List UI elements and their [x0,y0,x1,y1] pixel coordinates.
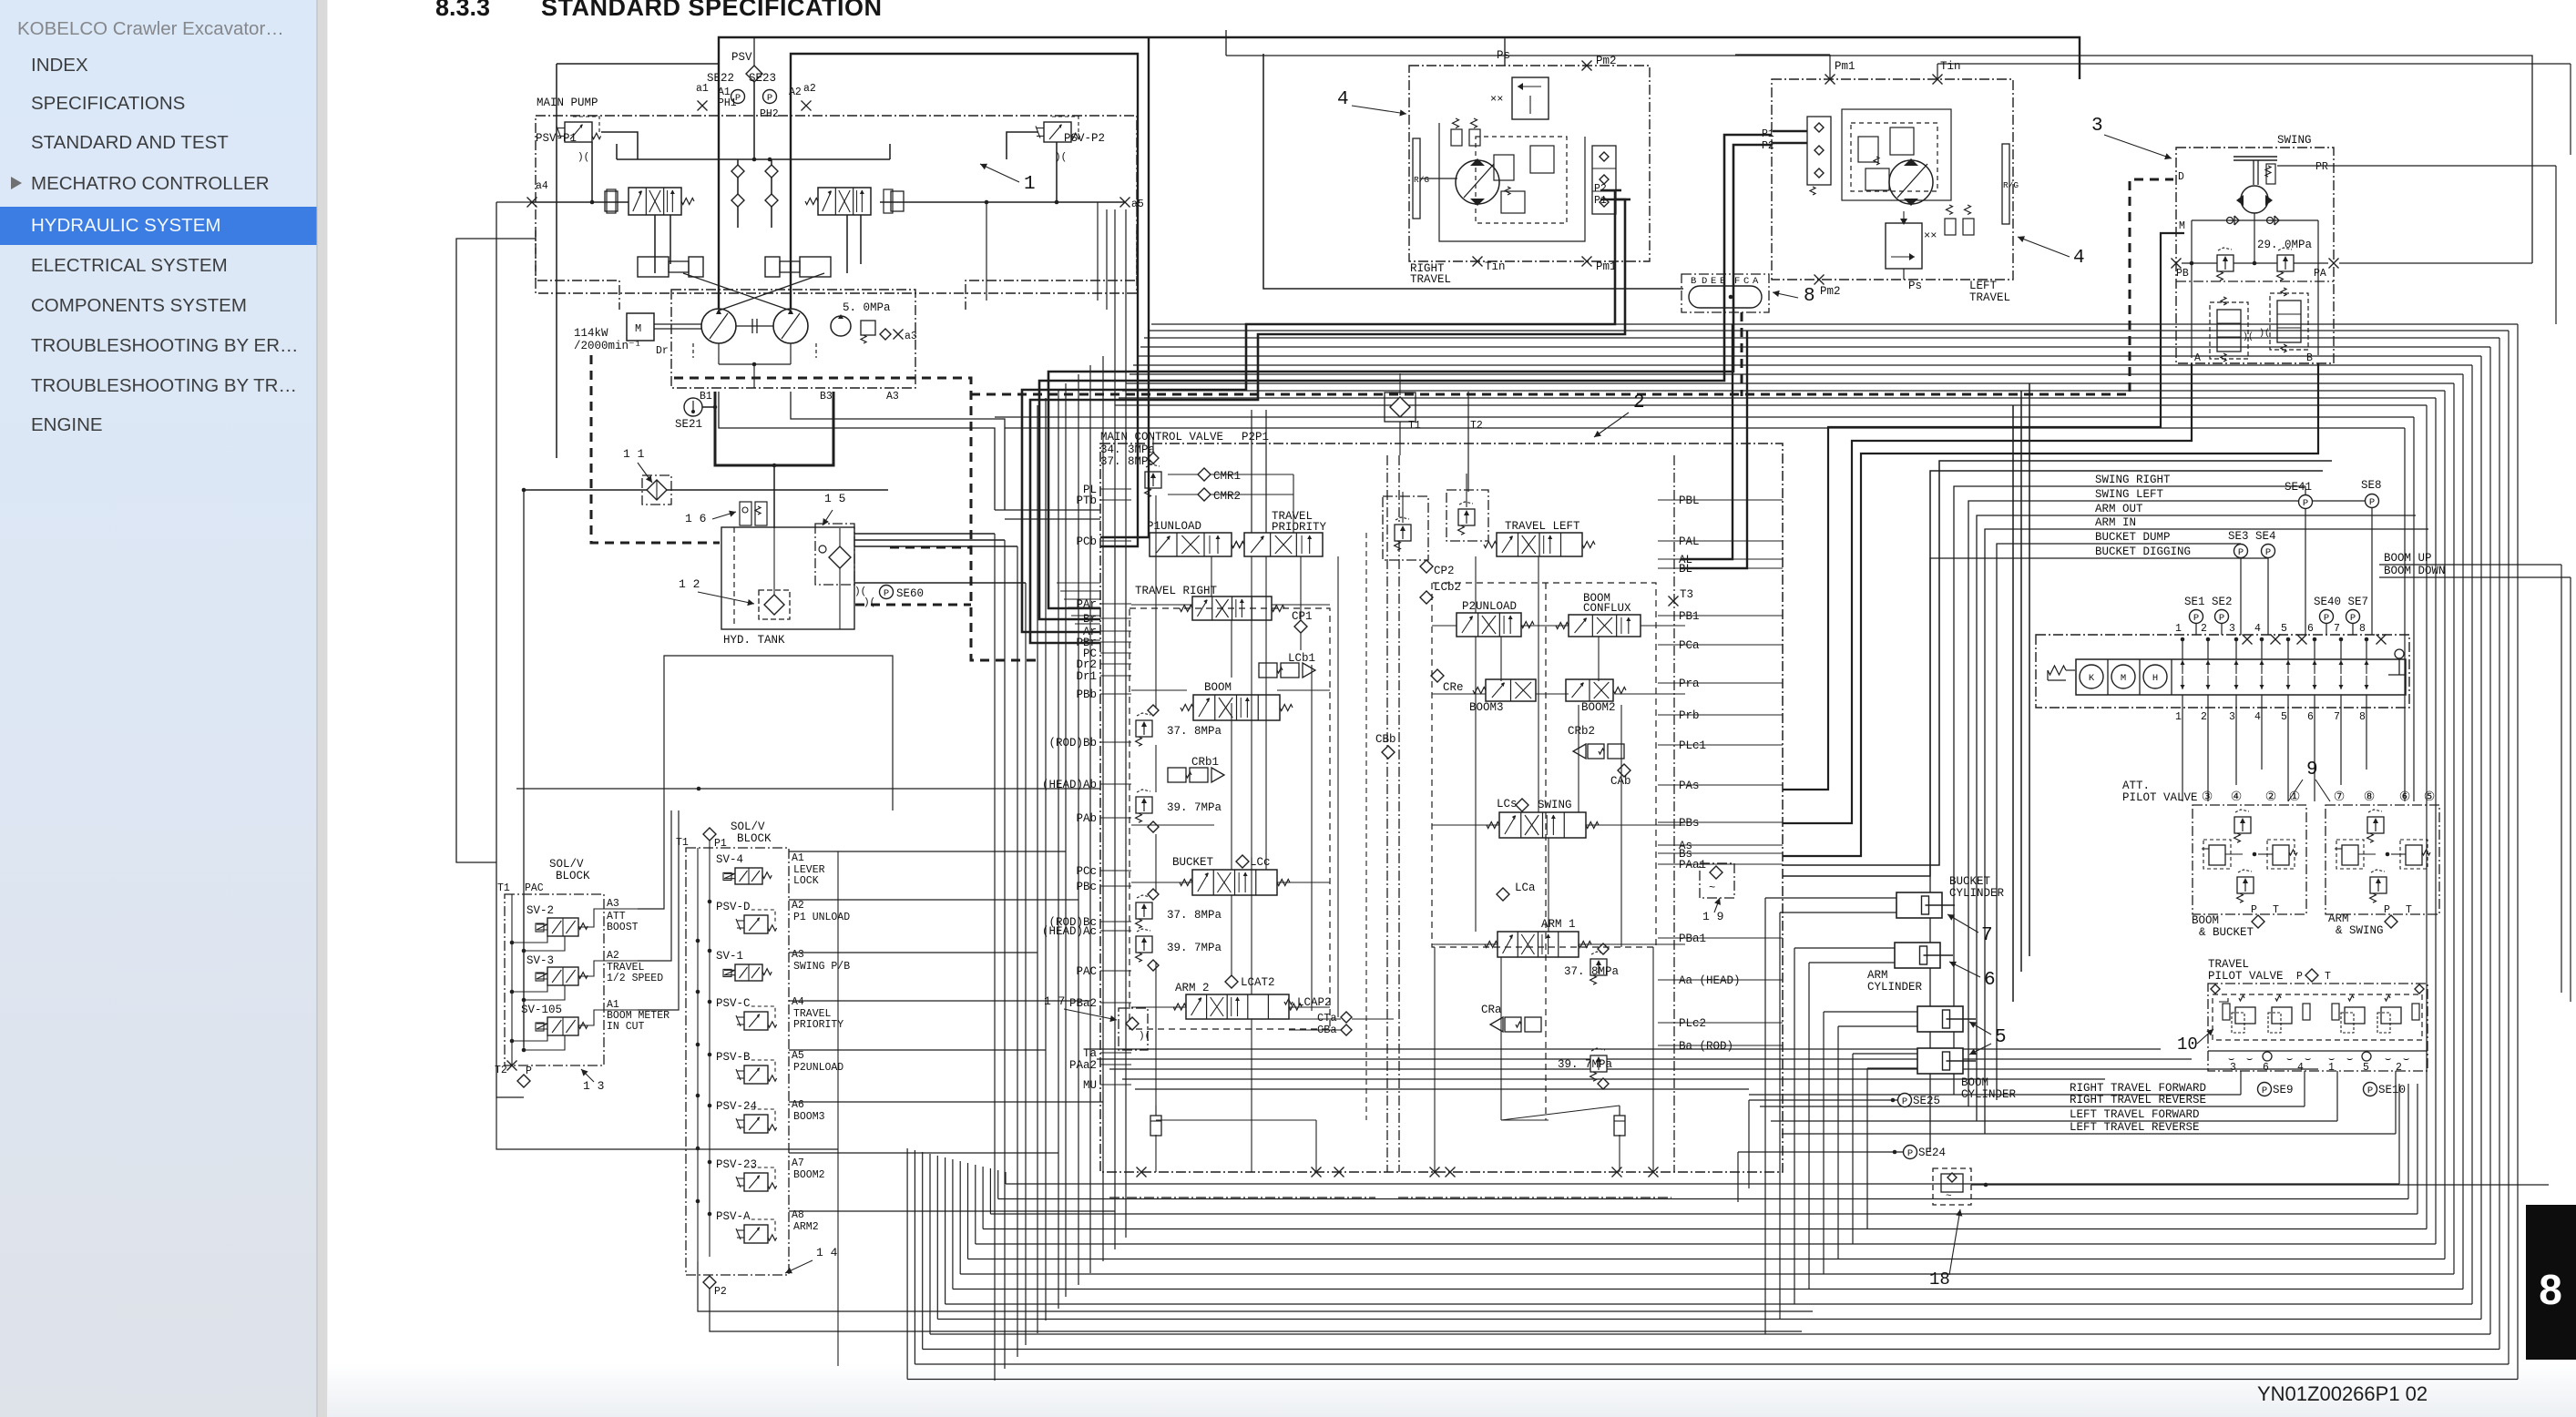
svg-text:4: 4 [2254,711,2261,723]
svg-text:PB1: PB1 [1679,610,1700,623]
svg-text:TRAVEL: TRAVEL [2208,958,2249,971]
svg-text:P2: P2 [714,1286,727,1298]
svg-text:PSV-24: PSV-24 [716,1100,757,1113]
svg-text:39. 7MPa: 39. 7MPa [1558,1058,1613,1071]
svg-text:A3: A3 [792,949,804,961]
sensor SE41 [2285,481,2313,509]
wire sensor drops [2196,508,2372,635]
pump circle 1 [701,309,736,343]
svg-text:C: C [1743,276,1749,287]
svg-text:1 6: 1 6 [685,512,706,525]
svg-text:Pm1: Pm1 [1596,260,1617,273]
svg-text:××: ×× [1924,229,1937,242]
wire pump P1 delivery [719,37,2080,537]
x mark a1 [698,101,708,111]
svg-text:6: 6 [2307,623,2314,635]
lt P1P2 ports [1762,128,1807,152]
svg-text:PBs: PBs [1679,817,1700,830]
svg-text:1 1: 1 1 [623,447,645,461]
check CTa [1317,1012,1352,1025]
svg-text:SE22: SE22 [707,72,734,85]
svg-text:ARM: ARM [2328,912,2349,925]
wire 14 outputs [789,851,1115,1211]
svg-text:⌣: ⌣ [2305,1055,2311,1065]
svg-text:LCs: LCs [1497,798,1518,810]
wire rcv to att pv [2182,713,2366,801]
svg-text:MECHATRO CONTROLLER: MECHATRO CONTROLLER [31,173,270,194]
svg-text:a3: a3 [905,331,917,342]
svg-text:P: P [2369,497,2375,508]
check CP2 [1420,560,1455,577]
filter T1 box [1385,373,1416,455]
svg-text:PLc2: PLc2 [1679,1017,1706,1030]
check CRa [1481,1004,1541,1032]
check CAb [1610,764,1631,788]
wire mcv feeds [995,510,1100,519]
svg-text:CBb: CBb [1375,733,1396,746]
svg-text:1 5: 1 5 [824,492,845,505]
svg-text:8: 8 [2539,1266,2562,1313]
svg-text:2: 2 [2201,711,2207,723]
svg-text:A1: A1 [792,852,804,864]
wire mcv left stubs [1100,489,1131,1085]
svg-text:P2P1: P2P1 [1242,431,1269,443]
check CRb1 [1168,756,1224,782]
wire bold dash oval drop [1741,312,1743,396]
black page tab 8 [2526,1205,2576,1360]
label SWING block [2277,134,2312,147]
svg-text:P: P [767,93,772,104]
label ATT PILOT VALVE [2122,780,2198,804]
svg-text:4: 4 [2297,1062,2304,1074]
relief bucket head [1136,929,1222,971]
wire tank outputs [854,534,1026,583]
sensor SE1 SE2 [2184,596,2233,624]
svg-text:SE25: SE25 [1913,1095,1940,1107]
x mark PB [2172,259,2189,280]
svg-text:10: 10 [2177,1035,2198,1055]
wire att pv supply verticals [2013,383,2029,1002]
svg-text:PSV-D: PSV-D [716,901,751,913]
svg-text:③: ③ [2202,790,2213,805]
svg-text:8.3.3: 8.3.3 [435,0,490,21]
mcv right port labels [1679,494,1741,1053]
svg-text:PBL: PBL [1679,494,1700,507]
check LCa [1497,882,1536,901]
wire loop PAa1 [1783,471,2323,876]
svg-text:)(: )( [2259,328,2270,339]
filter 15 assembly [815,524,854,629]
svg-text:SE8: SE8 [2361,479,2382,492]
label SOL/V BLOCK 14 [731,821,772,845]
remote control valve box [2036,635,2409,708]
mcv bottom symbols [1150,1106,1625,1136]
sensor SE9 [2258,1083,2294,1097]
svg-text:BLOCK: BLOCK [737,832,772,845]
relief boom head [1136,790,1222,832]
svg-text:M: M [2121,673,2126,684]
svg-text:B: B [1691,276,1696,287]
att pv circled numbers [2202,790,2436,805]
svg-text:⌣: ⌣ [2385,1055,2391,1065]
check LCb1 [1259,652,1315,678]
rcv x marks [2243,635,2387,645]
svg-text:P: P [1907,1148,1913,1159]
wire 13 outputs [638,810,679,1010]
svg-text:B3: B3 [820,391,833,403]
svg-text:LOCK: LOCK [793,875,819,887]
svg-text:BUCKET: BUCKET [1172,856,1214,869]
rt inner frame [1439,123,1585,241]
sensor SE10 [2364,1083,2407,1097]
wire a4 line [532,201,629,203]
wire top line y61 [1226,30,2532,263]
label 37.8MPa top [1100,455,1156,468]
check diamond col2a [765,165,778,178]
wire a5 down [986,202,987,301]
wire pump top bus [601,132,1038,159]
check CMR1 [1198,468,1241,483]
svg-text:39. 7MPa: 39. 7MPa [1167,801,1222,814]
svg-text:RIGHT TRAVEL FORWARD: RIGHT TRAVEL FORWARD [2070,1082,2206,1095]
svg-text:A7: A7 [792,1157,804,1169]
wire mcv h2 [1131,825,1330,1007]
wire long horizontal bus [1115,324,2518,1380]
svg-text:A2: A2 [607,950,619,962]
svg-text:A4: A4 [792,996,804,1008]
lt bottom valve [1886,211,1922,269]
valve BOOM2 [1566,679,1626,714]
sensor SE8 [2361,479,2382,508]
svg-text:P1: P1 [714,838,727,850]
svg-text:SE3 SE4: SE3 SE4 [2228,530,2276,543]
svg-text:SE60: SE60 [896,587,924,600]
x mark a3 [894,330,904,340]
label Pm2 lt [1814,275,1841,299]
label PAC 13 [525,882,544,894]
svg-text:TROUBLESHOOTING BY ER…: TROUBLESHOOTING BY ER… [31,335,299,356]
svg-text:CRb1: CRb1 [1191,756,1219,769]
label T2 mcv [1470,420,1483,432]
wire swash diagonal 2 [719,273,824,311]
svg-text:37. 8MPa: 37. 8MPa [1167,725,1222,738]
swing frame [2192,220,2318,358]
svg-text:MU: MU [1083,1079,1097,1092]
svg-text:T: T [2325,971,2331,983]
svg-text:P: P [2384,904,2390,916]
svg-text:CRa: CRa [1481,1004,1502,1016]
rcv handle [2388,649,2405,675]
svg-text:P1 UNLOAD: P1 UNLOAD [793,912,850,923]
wire thick B1B3 loop [715,392,833,465]
svg-text:Tin: Tin [1485,260,1506,273]
main pump dash-dot box [536,116,1137,293]
callout 7 [1947,914,1993,946]
svg-text:P2UNLOAD: P2UNLOAD [793,1062,843,1074]
valve SWING [1487,799,1599,838]
relief arm head [1558,1048,1613,1089]
rt top valve [1512,77,1549,119]
svg-text:PSV-C: PSV-C [716,997,751,1010]
label T2 13 [495,1061,517,1077]
svg-text:1: 1 [2328,1062,2335,1074]
wire far left frame [456,239,536,862]
sensor SE24 [1904,1146,1947,1160]
boom cylinder lower [1917,1048,1976,1074]
travel direction lines [1749,1071,2396,1134]
svg-text:a4: a4 [536,180,548,192]
svg-text:PSV-P1: PSV-P1 [536,132,577,145]
callout 14 [785,1246,838,1273]
svg-text:YN01Z00266P1 02: YN01Z00266P1 02 [2257,1382,2428,1405]
wire bold dash drain 1 [591,355,720,543]
svg-text:⌣: ⌣ [2403,1055,2409,1065]
svg-text:BUCKET: BUCKET [1949,875,1991,888]
wire left drop [496,202,532,1097]
item 18 valve [1933,1168,1971,1205]
wire sol14 to bottom [837,851,839,1366]
wire boom up/down lines [2379,565,2571,1002]
svg-text:P: P [526,1065,532,1077]
svg-text:1 4: 1 4 [816,1246,838,1259]
label A swing [2194,352,2201,364]
label Tin rt [1473,257,1506,274]
svg-text:Prb: Prb [1679,709,1700,722]
valve ARM2 [1173,982,1302,1019]
svg-text:BOOM UP: BOOM UP [2384,552,2432,565]
svg-text:BOOM3: BOOM3 [793,1111,825,1123]
wire big white box frame [664,656,893,810]
valve BOOM CONFLUX [1556,592,1641,637]
valve P2UNLOAD [1457,600,1534,637]
filter P2 14 [703,1276,727,1298]
arm cylinder [1895,943,1953,968]
label B1 [700,391,712,403]
rcv circles KMH [2080,665,2167,688]
wire hyd line 538 [522,488,888,493]
swing box [2176,148,2334,363]
callout 18 [1929,1209,1962,1290]
wire mcv v3 [1252,556,1266,994]
pilot pump circle [831,314,851,336]
svg-text:COMPONENTS SYSTEM: COMPONENTS SYSTEM [31,295,247,316]
wire PR line [2277,166,2556,324]
boom cylinder upper [1917,1006,1976,1032]
wire 14 internals [696,841,712,1261]
label A3 [886,391,899,403]
svg-text:PSV: PSV [731,51,752,64]
svg-text:PAa2: PAa2 [1069,1059,1097,1072]
valve P1UNLOAD [1147,520,1244,556]
travel pv bottom row [2208,1051,2428,1065]
valve BOOM [1181,681,1293,720]
svg-text:PRIORITY: PRIORITY [1272,521,1327,534]
mcv right divider [1673,455,1675,1172]
svg-text:④: ④ [2231,790,2243,805]
label HYD. TANK [723,634,785,647]
wire cmr links [1168,474,1293,494]
callout 3 [2091,116,2172,159]
wire mcv h4 [1432,825,1685,944]
callout 9 [2288,759,2330,801]
svg-text:~: ~ [1946,1191,1952,1202]
rt inner bits [1494,146,1554,213]
travel pv inner box [2213,994,2422,1040]
svg-text:CYLINDER: CYLINDER [1949,887,2005,900]
svg-text:KOBELCO Crawler Excavator…: KOBELCO Crawler Excavator… [17,18,284,39]
filter 12 [759,528,790,619]
travel pv end diamonds [2211,984,2424,994]
svg-text:/2000min⁻¹: /2000min⁻¹ [574,340,641,352]
svg-text:5. 0MPa: 5. 0MPa [843,301,891,314]
mcv right inner dashed box [1432,583,1656,947]
svg-text:)(: )( [578,152,589,163]
svg-text:P: P [2262,1086,2267,1096]
check CMR2 [1198,488,1241,503]
wire pump to mcv 1 [719,392,995,510]
svg-text:ARM 2: ARM 2 [1175,982,1210,994]
svg-text:A6: A6 [792,1099,804,1111]
svg-text:PH2: PH2 [760,108,779,120]
check CBa [1317,1024,1352,1036]
sensor SE60 [854,586,924,609]
svg-text:T2: T2 [1470,420,1483,432]
svg-text:3: 3 [2091,116,2103,137]
wire bottom bus [907,1084,2518,1380]
label A1 PH1 [718,87,737,109]
swing checks [2227,216,2280,225]
svg-text:PBb: PBb [1076,688,1097,701]
wire bold dash drain 2 [674,378,1038,660]
svg-text:PLc1: PLc1 [1679,739,1706,752]
lt RG bar [2002,144,2019,224]
label a5 [1131,199,1144,210]
svg-text:(ROD)Bb: (ROD)Bb [1048,737,1097,749]
svg-text:B: B [2306,352,2313,364]
svg-text:PBa2: PBa2 [1069,997,1097,1010]
wire mcv v4 [1293,474,1312,1011]
sidebar background [0,0,317,1417]
wire mcv h1 [1131,605,1330,690]
svg-text:P: P [2251,904,2257,916]
svg-text:LEFT: LEFT [1969,280,1998,292]
swing brake [2234,157,2277,185]
callout 4 rt [1337,89,1406,117]
label ARM CYLINDER [1867,969,1923,994]
label Dr [656,345,669,357]
svg-text:34. 3MPa: 34. 3MPa [1100,443,1156,456]
svg-text:SV-2: SV-2 [526,904,554,917]
label LCs [1497,798,1528,811]
callout 13 [581,1069,604,1093]
svg-text:Dr: Dr [656,345,669,357]
sensor SE40 SE7 [2314,596,2368,624]
svg-text:& BUCKET: & BUCKET [2199,926,2254,939]
svg-text:Pm2: Pm2 [1820,285,1841,298]
label 114kW [574,327,641,352]
svg-text:3: 3 [2229,711,2235,723]
lt inner frame [1842,109,1951,200]
svg-text:PBc: PBc [1076,881,1097,893]
label a3 [905,331,917,342]
label T3 [1669,588,1694,607]
svg-text:⑤: ⑤ [2424,790,2436,805]
mcv inner dashed vertical [1545,583,1547,1120]
label A3 13 [607,898,639,933]
wire band y455-470 [995,417,2414,801]
wire swash diagonal 1 [683,273,791,311]
svg-text:PAa1: PAa1 [1679,859,1706,872]
svg-text:SWING RIGHT: SWING RIGHT [2095,474,2171,486]
svg-text:PR: PR [2315,161,2328,173]
svg-text:PAC: PAC [525,882,544,894]
svg-text:P1: P1 [1594,195,1607,207]
svg-text:D: D [1702,276,1707,287]
svg-text:T2: T2 [495,1065,507,1076]
lt springs [1945,205,1974,235]
valve SV-3 [526,954,588,985]
svg-text:⑦: ⑦ [2334,790,2346,805]
relief mcv top mid1 [1383,492,1428,560]
svg-text:P: P [2350,613,2356,624]
svg-text:H: H [2152,673,2158,684]
wire pump drains [693,343,816,388]
x mark a4 [527,198,537,208]
svg-text:)(: )( [1139,1031,1150,1042]
lt xmarks [1924,229,1937,242]
svg-text:Ps: Ps [1908,280,1922,292]
rcv ports and arrows [2175,623,2369,723]
wire T2 riser [1467,392,1469,492]
valve PSV-P1 [536,117,601,163]
svg-text:2: 2 [1633,392,1645,413]
relief mcv top mid2 [1446,474,1488,541]
svg-text:6: 6 [2307,711,2314,723]
svg-text:⌣: ⌣ [2246,1055,2253,1065]
svg-text:& SWING: & SWING [2336,924,2384,937]
label SE23 [749,72,776,85]
sidebar highlight row [0,207,317,245]
svg-text:R/G: R/G [2003,180,2019,190]
wire a5 line [880,200,1125,205]
label SE22 [707,72,734,85]
svg-text:39. 7MPa: 39. 7MPa [1167,942,1222,954]
svg-text:PBa1: PBa1 [1679,933,1706,945]
rt RG bar [1413,138,1457,219]
svg-text:BOOM: BOOM [1961,1076,1988,1089]
swing mcv right [2259,288,2308,352]
label Ps lt [1904,269,1922,292]
svg-text:SV-3: SV-3 [526,954,554,967]
wire bottom long 866 [516,787,1100,791]
svg-text:4: 4 [1337,89,1349,110]
svg-text:Dr1: Dr1 [1076,670,1097,683]
label 29.0MPa [2257,239,2313,251]
pump circle 2 [773,309,808,343]
svg-text:SWING LEFT: SWING LEFT [2095,488,2164,501]
lt inner bits [1858,127,1914,190]
svg-text:P: P [2219,613,2224,624]
wire AL BL risers [1681,324,1747,568]
right travel box [1409,66,1650,261]
svg-text:PSV-B: PSV-B [716,1051,751,1064]
wire mcv v6 [1476,556,1538,932]
svg-text:②: ② [2265,790,2277,805]
pump inner dash-dot box [671,290,915,388]
label MAIN CONTROL VALVE [1100,431,1223,443]
svg-text:PSV-P2: PSV-P2 [1064,132,1105,145]
label PH2 [760,108,779,120]
